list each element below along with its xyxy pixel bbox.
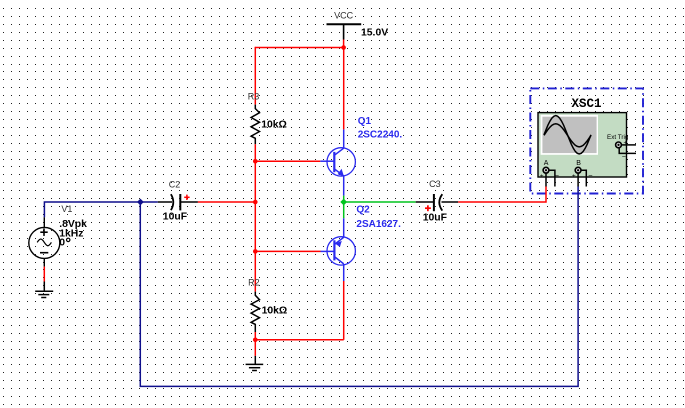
wire V1 bottom red — [43, 267, 45, 282]
wire R3 to node column — [254, 144, 256, 291]
wire C2 to node (red) — [198, 201, 255, 203]
C2 polarity + — [184, 195, 189, 200]
wire Q1 base — [255, 160, 320, 162]
wire bottom rail — [255, 339, 343, 341]
wire Q2 base — [255, 250, 320, 252]
wire R2 to ground — [254, 332, 256, 356]
Q1 emitter arrow — [338, 169, 344, 176]
terminal A — [543, 167, 549, 173]
node junction at VCC rail — [341, 45, 346, 50]
scope trace outer — [544, 116, 591, 154]
svg-text:VCC: VCC — [334, 11, 354, 21]
svg-text:V1: V1 — [61, 204, 72, 214]
ground symbol under V1 — [35, 291, 53, 297]
ground lead under V1 — [43, 282, 45, 292]
oscilloscope XSC1 body — [538, 113, 627, 177]
svg-text:10uF: 10uF — [423, 213, 447, 224]
capacitor C2 — [158, 194, 198, 210]
wire Q1 collector (red) — [343, 48, 345, 130]
svg-text:C3: C3 — [429, 179, 441, 189]
ground lead under R2 — [254, 356, 256, 365]
scope trace inner — [544, 124, 591, 147]
wire VCC to rail (red) — [343, 40, 345, 48]
wire emitters green — [343, 196, 345, 219]
svg-text:10kΩ: 10kΩ — [261, 120, 287, 131]
svg-text:15.0V: 15.0V — [361, 28, 388, 39]
wire scope B to input net (navy) — [140, 187, 578, 387]
svg-text:XSC1: XSC1 — [572, 97, 602, 111]
svg-text:10uF: 10uF — [163, 211, 187, 222]
node junction bottom rail — [253, 338, 258, 343]
resistor R2 — [251, 292, 259, 332]
pin A minus — [549, 170, 555, 186]
wire Q2 collector down — [343, 281, 345, 340]
node junction base Q1 — [253, 159, 258, 164]
Q2 emitter arrow — [335, 241, 342, 247]
svg-text:C2: C2 — [169, 180, 181, 190]
svg-text:2SC2240.: 2SC2240. — [358, 130, 403, 141]
svg-text:Q1: Q1 — [358, 116, 372, 127]
wire output to C3 (green) — [344, 201, 416, 203]
svg-text:−: − — [622, 154, 626, 161]
wire top rail — [255, 47, 343, 49]
terminal B — [575, 167, 581, 173]
pin B plus — [577, 173, 579, 186]
source V1 — [29, 217, 60, 266]
node junction base Q2 — [253, 249, 258, 254]
svg-text:0: 0 — [59, 238, 65, 249]
svg-text:Q2: Q2 — [356, 205, 370, 216]
svg-text:A: A — [544, 160, 549, 167]
pin B minus — [581, 170, 586, 186]
svg-text:+: + — [540, 173, 544, 180]
transistor Q1 2SC2240 — [320, 129, 355, 195]
scope screen — [541, 115, 598, 155]
svg-text:R3: R3 — [248, 92, 260, 102]
svg-text:R2: R2 — [248, 278, 260, 288]
svg-text:−: − — [588, 171, 593, 180]
wire rail down to R3 — [254, 47, 256, 105]
VCC power symbol — [327, 24, 362, 39]
wire V1 top (navy) — [44, 202, 157, 217]
svg-text:2SA1627.: 2SA1627. — [356, 219, 401, 230]
svg-text:10kΩ: 10kΩ — [262, 305, 288, 316]
resistor R3 — [251, 105, 259, 145]
node junction output (green) — [340, 199, 347, 206]
node junction C2 — [253, 200, 258, 205]
svg-text:B: B — [576, 160, 581, 167]
pin A plus — [545, 173, 547, 186]
svg-text:+: + — [572, 173, 576, 180]
capacitor C3 — [416, 194, 459, 211]
Ext Trig pins — [621, 144, 636, 146]
ground symbol under R2 — [246, 364, 264, 370]
C3 polarity + — [425, 205, 431, 211]
transistor Q2 2SA1627 — [321, 218, 356, 281]
wire C3 to scope A (red) — [458, 187, 546, 203]
selection box around scope — [530, 88, 643, 193]
Ext Trig terminal — [616, 142, 622, 148]
node junction input — [137, 199, 144, 206]
